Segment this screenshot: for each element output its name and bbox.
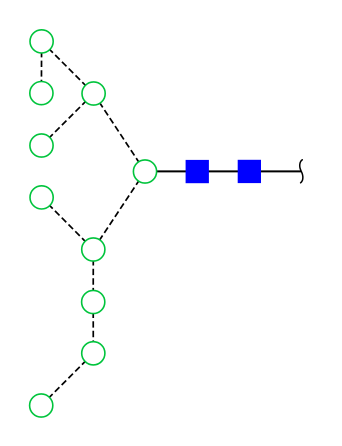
node Man7 (green circle) (82, 238, 105, 261)
wire C1-C2 dashed (40, 41, 42, 93)
node Man4 (green circle) (30, 134, 53, 157)
wire C7-C5 dashed (42, 197, 94, 249)
wire C3-C4 dashed (42, 94, 94, 146)
wire C8-C9 dashed (92, 302, 94, 353)
wire C6-C7 dashed (93, 172, 145, 250)
node Man3 (green circle) (82, 82, 105, 105)
node GlcNAc1 (blue square) (186, 160, 209, 183)
wire C6 to reducing end (solid) (145, 170, 302, 172)
reducing-end squiggle (300, 160, 303, 183)
wire C3-C1 dashed (42, 41, 94, 93)
node Man6 (green circle) (133, 160, 156, 183)
wire C7-C8 dashed (92, 250, 94, 303)
node Man9 (green circle) (82, 342, 105, 365)
node Man5 (green circle) (30, 186, 53, 209)
wire C6-C3 dashed (94, 94, 145, 172)
node Man8 (green circle) (82, 290, 105, 313)
node GlcNAc2 (blue square) (238, 160, 261, 183)
node Man1 (green circle) (30, 30, 53, 53)
node Man2 (green circle) (30, 82, 53, 105)
node Man10 (green circle) (30, 394, 53, 417)
wire C9-C10 dashed (41, 353, 93, 405)
